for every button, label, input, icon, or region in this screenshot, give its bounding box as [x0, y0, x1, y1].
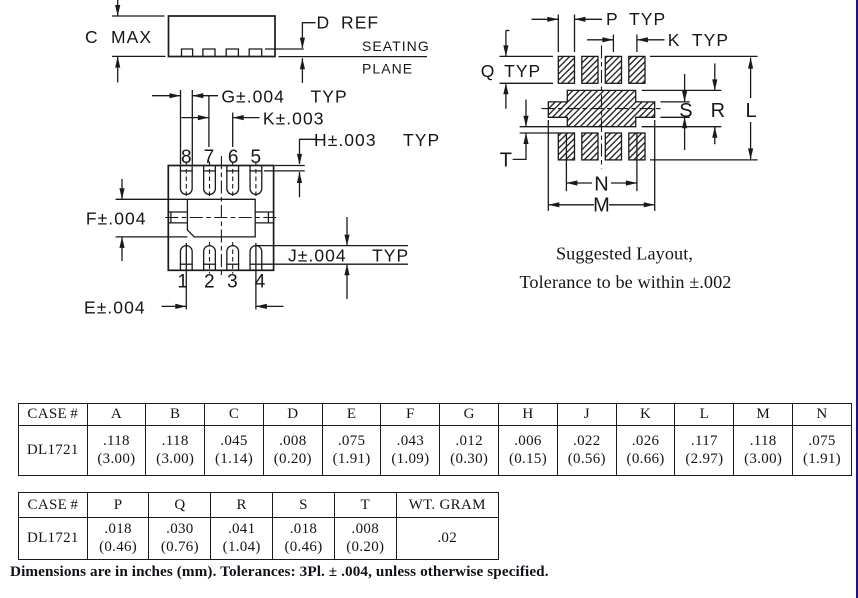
top view pin 4 pad [249, 246, 262, 271]
left tab lines [168, 211, 187, 213]
dimension L extension lines [650, 55, 758, 57]
svg-text:TYP: TYP [372, 246, 409, 266]
side view pin foot 3 [226, 49, 238, 57]
layout bottom pad 3 [605, 133, 621, 160]
svg-text:6: 6 [228, 147, 239, 168]
side view package body outline [169, 16, 276, 57]
top view pin 8 pad [180, 162, 193, 197]
svg-text:H±.003: H±.003 [314, 130, 377, 150]
top view pin 1 pad [180, 246, 193, 271]
svg-text:Suggested Layout,: Suggested Layout, [556, 244, 693, 264]
svg-text:T: T [500, 149, 512, 171]
dimension J extension lines [256, 245, 408, 247]
svg-text:M: M [593, 194, 610, 216]
svg-text:S: S [679, 100, 692, 122]
svg-text:3: 3 [227, 272, 238, 293]
die body outline with pin 1 chamfer [187, 199, 255, 237]
seating plane arrow [300, 58, 305, 83]
svg-text:5: 5 [251, 147, 262, 168]
dimension D leader [300, 23, 316, 49]
svg-text:D: D [317, 13, 331, 33]
svg-text:8: 8 [181, 147, 192, 168]
svg-text:R: R [711, 100, 725, 122]
svg-text:P: P [606, 9, 619, 29]
dimension S arrows [682, 74, 687, 150]
svg-text:PLANE: PLANE [362, 61, 413, 77]
right tab lines [255, 211, 273, 213]
top view pin 5 pad [249, 162, 262, 197]
layout top pad 7 [582, 56, 598, 83]
dimension E extension lines [185, 243, 187, 310]
dimension Q extension lines [500, 55, 554, 57]
layout horizontal centerline [542, 108, 662, 110]
dimension R extension lines [642, 89, 722, 91]
svg-text:F±.004: F±.004 [86, 208, 147, 228]
svg-text:K±.003: K±.003 [263, 108, 325, 128]
svg-text:Tolerance to be within ±.002: Tolerance to be within ±.002 [519, 272, 731, 292]
horizontal centerline [165, 217, 279, 219]
svg-text:K: K [668, 30, 681, 50]
layout center pad cross [548, 90, 654, 126]
dimension L arrows [748, 58, 753, 160]
dimension K extension lines [208, 96, 210, 147]
pin foot top extension line [265, 48, 304, 50]
dimension M arrows [548, 202, 654, 207]
dimension E arrows [162, 304, 284, 309]
dimension F arrows [119, 179, 124, 261]
dimension table 2 (P-T, weight) [18, 492, 499, 560]
layout bottom pad 1 [558, 133, 574, 160]
dimension K layout arrows [587, 37, 664, 42]
footer tolerance note [10, 563, 549, 581]
svg-text:G±.004: G±.004 [221, 86, 285, 106]
svg-text:TYP: TYP [403, 130, 440, 150]
dimension R arrows [712, 63, 717, 144]
top view pin 2 pad [203, 242, 216, 274]
dimension Q arrows [503, 31, 509, 109]
top view pin 3 pad [226, 242, 239, 274]
svg-text:L: L [746, 100, 757, 122]
dimension H extension lines [275, 165, 305, 167]
layout top pad 5 [629, 56, 645, 83]
dimension N arrows [566, 180, 637, 185]
dimension J arrows [344, 217, 349, 299]
dimension H leader [297, 139, 316, 165]
dimension K arrows [182, 115, 260, 120]
dimension T extension lines [520, 126, 568, 128]
dimension G extension lines [180, 90, 182, 165]
seating plane line [279, 56, 428, 58]
svg-text:J±.004: J±.004 [288, 246, 347, 266]
side view pin foot 4 [249, 49, 262, 57]
svg-text:REF: REF [341, 13, 379, 33]
dimension K layout extension lines [612, 35, 614, 52]
svg-text:MAX: MAX [111, 27, 152, 47]
vertical centerline [220, 156, 222, 276]
svg-text:Q: Q [481, 61, 496, 81]
dimension M extension lines [547, 120, 549, 211]
svg-text:TYP: TYP [311, 86, 348, 106]
svg-text:C: C [85, 27, 99, 47]
svg-text:SEATING: SEATING [362, 38, 430, 54]
svg-text:TYP: TYP [504, 61, 541, 81]
svg-text:TYP: TYP [692, 30, 729, 50]
layout bottom pad 4 [629, 133, 645, 160]
top view package outline [168, 166, 273, 271]
dimension C extension line top [112, 15, 165, 17]
layout top pad 8 [558, 56, 574, 83]
svg-text:2: 2 [204, 272, 215, 293]
dimension table 1 (A-N) [18, 403, 852, 476]
svg-text:7: 7 [204, 147, 215, 168]
dimension F extension lines [116, 198, 188, 200]
dimension P extension lines [557, 15, 559, 53]
dimension N extension lines [565, 133, 567, 191]
dimension C arrow top [115, 0, 120, 16]
scan edge border [856, 0, 858, 598]
dimension C arrow bottom [115, 57, 120, 83]
side view pin foot 2 [203, 49, 215, 57]
svg-text:E±.004: E±.004 [84, 298, 146, 318]
dimension C extension line bottom [112, 55, 166, 57]
layout vertical centerline [601, 46, 603, 169]
dimension H lower arrow [297, 172, 302, 197]
svg-text:N: N [594, 173, 608, 195]
top view pin 6 pad [226, 162, 239, 197]
dimension G arrows [152, 93, 218, 98]
dimension P arrows [532, 17, 603, 22]
top view pin 7 pad [203, 162, 216, 197]
layout bottom pad 2 [582, 133, 598, 160]
dimension S extension lines [660, 101, 689, 103]
side view pin foot 1 [182, 49, 193, 57]
svg-text:TYP: TYP [629, 9, 666, 29]
layout top pad 6 [605, 56, 621, 83]
dimension T arrows [513, 100, 529, 160]
